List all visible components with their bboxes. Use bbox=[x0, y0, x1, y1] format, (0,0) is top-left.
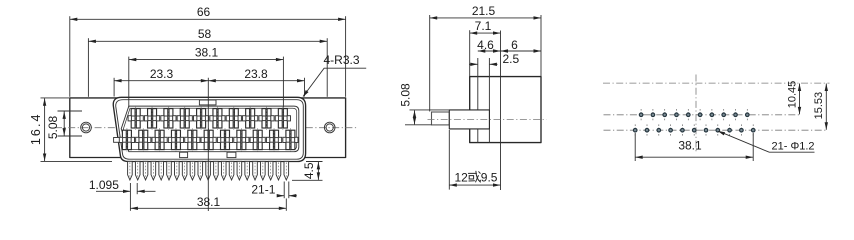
svg-text:38.1: 38.1 bbox=[197, 195, 221, 209]
svg-text:4.5: 4.5 bbox=[302, 162, 316, 179]
svg-text:1.095: 1.095 bbox=[89, 178, 119, 192]
svg-text:4.6: 4.6 bbox=[477, 38, 494, 52]
svg-text:21.5: 21.5 bbox=[472, 4, 496, 18]
svg-text:21-1: 21-1 bbox=[251, 183, 275, 197]
svg-text:16.4: 16.4 bbox=[29, 112, 43, 145]
svg-text:2.5: 2.5 bbox=[503, 52, 520, 66]
svg-text:58: 58 bbox=[198, 27, 212, 41]
svg-text:5.08: 5.08 bbox=[46, 115, 60, 139]
svg-text:6: 6 bbox=[511, 38, 518, 52]
svg-text:21- Φ1.2: 21- Φ1.2 bbox=[772, 140, 815, 152]
svg-text:5.08: 5.08 bbox=[398, 83, 412, 107]
svg-text:38.1: 38.1 bbox=[195, 46, 219, 60]
svg-text:9.5: 9.5 bbox=[481, 171, 498, 185]
svg-text:23.8: 23.8 bbox=[244, 67, 268, 81]
svg-text:12: 12 bbox=[455, 171, 469, 185]
svg-text:4-R3.3: 4-R3.3 bbox=[324, 53, 360, 67]
svg-text:15.53: 15.53 bbox=[813, 92, 825, 120]
svg-text:10.45: 10.45 bbox=[787, 81, 799, 109]
svg-text:66: 66 bbox=[197, 5, 211, 19]
svg-text:38.1: 38.1 bbox=[678, 139, 702, 153]
svg-text:23.3: 23.3 bbox=[150, 67, 174, 81]
svg-text:7.1: 7.1 bbox=[475, 19, 492, 33]
